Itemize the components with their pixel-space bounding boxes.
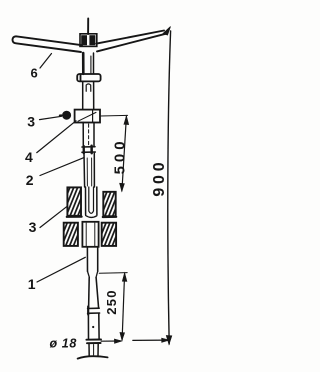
handle tip / dim 900 top arrow [163, 27, 171, 36]
sleeve flange [77, 74, 100, 81]
upper shaft [83, 82, 94, 110]
dim 900 line [168, 31, 171, 344]
dim 250 line [122, 273, 125, 340]
bottom extension left arrow [114, 339, 122, 343]
svg-text:3: 3 [27, 114, 35, 130]
dim 900 bottom arrow [166, 336, 172, 345]
rod bottom band [86, 340, 101, 344]
svg-text:1: 1 [28, 276, 36, 292]
dim 250 bottom arrow [120, 332, 125, 340]
svg-text:3: 3 [29, 219, 37, 235]
rod middle section [89, 278, 99, 309]
tube section row2 [82, 222, 98, 247]
rod tip center line [93, 345, 95, 356]
dim 500 bottom arrow [120, 183, 125, 191]
leader label 2 [40, 158, 84, 176]
dim 500 line [122, 117, 127, 192]
collar set screw [60, 111, 71, 119]
dim 500 top arrow [124, 116, 129, 125]
leader label 1 [37, 257, 85, 282]
left handle bar [13, 36, 83, 52]
rod lower section [88, 313, 99, 339]
rod joint lower [88, 307, 100, 315]
bottom extension right arrow [162, 338, 170, 342]
hatched block row1 left [67, 187, 82, 216]
svg-text:250: 250 [104, 289, 119, 315]
leader label 3b [40, 206, 67, 227]
tube between row1 blocks [86, 187, 97, 217]
mid shaft center line [88, 124, 90, 146]
svg-text:ø 18: ø 18 [50, 337, 77, 351]
shaft inner slot [86, 84, 91, 91]
collar [75, 110, 100, 123]
rod below row2 [87, 247, 97, 271]
mid shaft [83, 123, 94, 147]
leader label 3a [40, 116, 62, 119]
bottom extension line right segment [133, 339, 168, 341]
dim 250 top arrow [122, 273, 127, 282]
rod step shoulders [88, 271, 98, 277]
shaft joint coupling [82, 146, 95, 153]
svg-text:500: 500 [111, 137, 128, 174]
dim 500 extension line [100, 114, 127, 117]
svg-text:6: 6 [31, 66, 38, 81]
hatched block row2 left [64, 223, 78, 246]
rod dot mark [92, 326, 94, 328]
hatched block row1 right [103, 192, 116, 217]
svg-text:900: 900 [151, 159, 168, 197]
hatched block row2 right [102, 223, 116, 246]
lower tube above blocks [84, 153, 94, 187]
dim 250 extension line [99, 272, 127, 275]
svg-text:4: 4 [25, 149, 33, 165]
sleeve under handle [83, 53, 93, 74]
leader label 4 [37, 121, 76, 153]
label 6 leader [40, 54, 52, 69]
handle nut [80, 34, 97, 47]
rod tip [89, 343, 98, 356]
right handle bar [97, 31, 166, 52]
svg-text:2: 2 [26, 172, 34, 188]
lower tube inner bore lines [87, 158, 92, 186]
top bolt stub [87, 19, 89, 35]
ground line [78, 356, 108, 358]
bottom extension line left segment [101, 340, 121, 342]
